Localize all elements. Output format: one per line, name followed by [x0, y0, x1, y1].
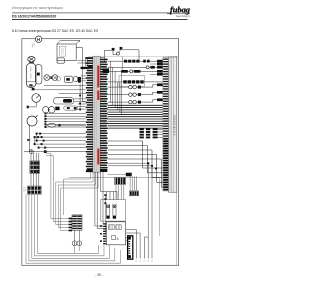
loop wire 5: [38, 194, 99, 253]
PCB right wires: [126, 230, 141, 241]
loop wire 3: [32, 194, 110, 258]
connector C2: [128, 236, 133, 259]
tiny label left of XT2: [23, 188, 26, 191]
wire W4 to S1: [56, 172, 93, 225]
svg-text:4 SLI 40 12A DAC: 4 SLI 40 12A DAC: [172, 114, 176, 135]
DIP switch cluster: [140, 128, 163, 138]
cylinder bottom tick and wire: [32, 88, 35, 90]
staircase wires to lower strip: [108, 141, 163, 187]
loop wire 4: [35, 194, 104, 255]
terminal block near M2: [55, 107, 59, 111]
side cartridge: [35, 65, 42, 84]
rail red marking mid: [97, 91, 99, 101]
small contact circle: [56, 77, 60, 81]
rail left pins: [86, 58, 93, 173]
lamp pair under S1: [72, 230, 82, 253]
junction block on cartridge: [37, 73, 40, 76]
wire top loop right: [122, 50, 139, 60]
svg-text:8.8 Схема электрическая DS 27: 8.8 Схема электрическая DS 27 DAC ES, DS…: [12, 29, 99, 33]
wire row y67 with contact: [108, 66, 163, 69]
junction dots on long wires: [147, 162, 157, 169]
rail inner lines: [95, 56, 97, 172]
svg-text:H: H: [37, 37, 40, 42]
relay coil row black blocks: [108, 80, 163, 83]
junction dot column: [104, 194, 106, 204]
long wire to right drop 1: [108, 163, 149, 258]
wires dots to rail: [35, 134, 86, 148]
wires right of C2: [136, 230, 148, 259]
fubag logo: [167, 6, 191, 18]
capacitor C1: [45, 123, 61, 127]
relay K2: [54, 98, 74, 104]
wires through terminal blocks: [31, 153, 39, 186]
svg-text:Инструкция по эксплуатации: Инструкция по эксплуатации: [12, 6, 63, 10]
header rule 1: [12, 12, 170, 14]
contact oval: [73, 77, 77, 82]
lamp HL2: [52, 75, 58, 81]
DIN rail terminal strip background: [93, 56, 100, 172]
earth junction circle: [30, 150, 34, 154]
striped connector S1: [72, 215, 82, 230]
loop wire 2: [29, 194, 115, 260]
wire W1 to S1: [46, 153, 69, 218]
tank/filter cylinder: [26, 63, 36, 87]
panel top light line: [88, 55, 179, 57]
wire earth row: [24, 151, 86, 153]
vertical wire x79.5: [79, 84, 81, 109]
PCB control board: [106, 222, 125, 245]
contactor coil 1: [106, 204, 109, 219]
relay box K0: [57, 58, 65, 63]
vertical wire right of relays: [83, 66, 86, 102]
contact pair row y94.6: [108, 91, 163, 96]
connector C1: [130, 191, 139, 196]
wire bus to terminal strip: [108, 105, 163, 128]
rail bottom caps: [86, 169, 107, 172]
rail right pins: [100, 59, 107, 171]
contact pair row y102.1: [108, 98, 163, 103]
terminal block XT1: [30, 161, 40, 174]
terminal strip body: [169, 57, 177, 192]
wire row y71 with contacts: [108, 70, 163, 73]
junction dot: [50, 76, 52, 78]
wire gauge stem: [28, 125, 30, 152]
node H circle: [35, 36, 41, 42]
wires small connector to C1: [130, 176, 136, 191]
small grey marks top-left: [32, 43, 34, 47]
rail red marking lower: [97, 149, 99, 165]
vertical links right of rail: [110, 57, 122, 115]
rail fanout wires: [95, 172, 117, 242]
wire drops to rail top: [85, 57, 104, 66]
rail top caps: [81, 65, 110, 73]
svg-text:6: 6: [117, 237, 119, 241]
pressure gauge P1: [27, 94, 41, 109]
PCB left pins: [103, 223, 106, 244]
wire battery to top circuit: [76, 48, 82, 67]
contact pair row y87.1: [108, 83, 163, 88]
pressure switch gauge P2: [27, 115, 38, 126]
loop wire 1: [26, 194, 121, 263]
header rule 2: [12, 19, 188, 21]
wire row y61 with fuse dashes: [108, 60, 163, 63]
S1 left pins: [69, 218, 72, 232]
tiny labels under wires: [136, 260, 153, 262]
small connector under rail: [108, 173, 132, 177]
strip top edge wire: [163, 56, 179, 58]
terminal black block: [78, 77, 81, 83]
svg-text:www.fubag.ru: www.fubag.ru: [176, 15, 191, 18]
junction square: [44, 150, 47, 153]
contactor coil 2: [113, 204, 116, 219]
relay K1: [64, 76, 73, 82]
wires S2 to contactor: [116, 185, 124, 200]
schematic frame: [22, 39, 179, 266]
extra wire end blocks: [150, 63, 163, 76]
long wire to right drop 2: [108, 166, 152, 259]
wire top loop left: [105, 50, 112, 62]
wire W6 to S1: [61, 172, 98, 231]
relay K3: [64, 106, 78, 110]
contactor box KM1: [101, 200, 126, 222]
wire W3: [64, 172, 91, 215]
battery/starter box B1: [57, 40, 80, 60]
left horizontal wires to rail: [31, 61, 86, 126]
terminal strip pin cells: [163, 58, 169, 192]
relay module box: [119, 76, 145, 87]
inner right border line: [176, 57, 178, 265]
arrow mark on wire: [27, 139, 30, 141]
junction dot column: [79, 95, 81, 111]
wire W5 to S1: [58, 172, 95, 228]
svg-text:DS 16/20/27/40/55/66/80/100: DS 16/20/27/40/55/66/80/100: [12, 15, 56, 19]
motor M2 twin circles: [43, 107, 55, 113]
outer box around bottom components: [69, 177, 160, 236]
left bus lines with end dots: [44, 113, 85, 128]
terminal block XT2: [27, 186, 41, 195]
svg-text:- 39 -: - 39 -: [95, 273, 104, 277]
rail red marking upper: [97, 66, 99, 88]
junction dots grid and wires: [34, 133, 47, 149]
striped connector S2: [115, 177, 126, 184]
svg-text:fubag: fubag: [170, 6, 190, 15]
wire W2 to S1: [46, 156, 69, 222]
lamp HL1: [44, 75, 50, 81]
breaker Q1 symbols: [112, 47, 123, 55]
motor M1 fan symbol: [28, 57, 35, 64]
